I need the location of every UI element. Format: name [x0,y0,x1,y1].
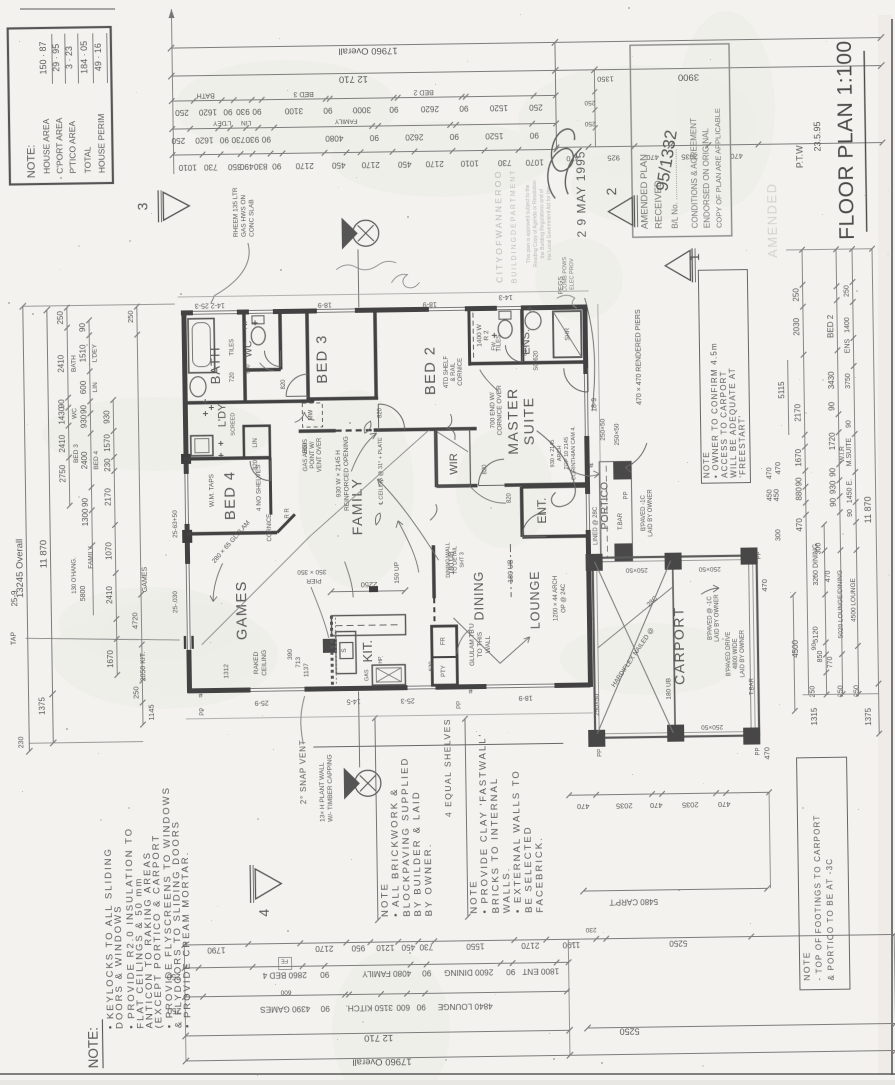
svg-text:PP: PP [755,747,761,755]
svg-text:WALLS.: WALLS. [501,867,513,914]
svg-text:FAMILY: FAMILY [87,545,94,568]
svg-text:REINFORCED OPENING: REINFORCED OPENING [343,436,351,511]
wall ens bottom robe top [470,362,586,364]
svg-text:29 · 95: 29 · 95 [51,44,61,72]
carport mid beam [673,557,676,737]
kitchen stove [372,665,405,685]
svg-text:R 2: R 2 [483,330,490,341]
svg-text:3750: 3750 [845,373,852,389]
svg-text:470: 470 [577,802,590,811]
bottom dim 5250 right [588,1023,895,1028]
svg-text:713: 713 [295,656,302,667]
svg-text:WC: WC [71,408,78,419]
door arc bed4 [250,461,270,481]
wall bath ldy divider [183,401,314,403]
svg-text:GAS HWS ON: GAS HWS ON [240,194,248,237]
svg-text:1010: 1010 [460,159,479,168]
svg-text:90: 90 [529,131,539,140]
annotation 2250 dim [331,591,405,592]
sheet corner line top left [20,8,115,10]
svg-text:11 870: 11 870 [38,540,49,569]
bed2 robe dashed [472,313,475,360]
svg-text:600: 600 [396,1003,410,1012]
tap cross marks [203,399,208,404]
svg-text:WALL: WALL [485,635,492,653]
svg-text:450: 450 [401,943,415,952]
svg-text:GAMES: GAMES [142,567,149,593]
svg-text:130 O'HANG.: 130 O'HANG. [72,557,79,594]
kitchen plant wall dashed [331,616,332,686]
svg-text:2: 2 [603,187,619,195]
wall wir bottom [436,484,477,488]
svg-text:2050 KIT.: 2050 KIT. [140,652,147,682]
svg-text:250: 250 [837,685,844,697]
svg-text:17960 Overall: 17960 Overall [338,45,397,57]
svg-text:18-9: 18-9 [318,301,332,308]
svg-text:HOUSE AREA: HOUSE AREA [41,118,52,174]
svg-text:MASTER: MASTER [504,387,521,455]
right dim col D wir bed2 [836,249,843,694]
svg-text:25-3: 25-3 [195,302,209,309]
svg-text:CONC SLAB: CONC SLAB [248,199,256,237]
svg-text:5115: 5115 [777,381,786,399]
svg-text:820: 820 [253,459,259,470]
wall kit dining dashed [433,598,435,626]
svg-text:3150 KITCH.: 3150 KITCH. [345,1003,392,1013]
window ens top [497,305,521,311]
svg-text:250: 250 [584,99,595,106]
svg-text:4390 GAMES: 4390 GAMES [260,1004,311,1014]
paving line bottom [186,713,593,719]
svg-text:AMENDED PLAN: AMENDED PLAN [639,154,651,229]
wall wir left [434,429,438,487]
svg-text:250: 250 [131,686,140,699]
window dining bottom [407,685,435,691]
svg-text:820: 820 [482,464,488,475]
svg-text:4 EQUAL SHELVES: 4 EQUAL SHELVES [442,718,453,817]
svg-text:2170: 2170 [425,159,444,168]
svg-text:25-63+50: 25-63+50 [172,510,179,538]
svg-text:300: 300 [775,529,782,541]
svg-text:14-3: 14-3 [499,293,513,300]
svg-text:T.BAR: T.BAR [618,512,624,530]
svg-text:SHT 3: SHT 3 [459,552,465,568]
svg-text:4500 LOUNGE: 4500 LOUNGE [850,577,858,621]
svg-text:L'DY: L'DY [216,403,228,427]
games raking diagonal [200,536,312,645]
svg-text:90: 90 [320,970,330,979]
svg-text:#: # [469,689,473,697]
svg-text:12 710: 12 710 [364,1032,393,1043]
svg-text:90: 90 [828,467,837,477]
door arc master [478,459,504,485]
svg-text:GAS: GAS [364,669,370,681]
wall bed4 right [269,458,273,515]
signature arrow [585,298,596,410]
svg-text:4800 WIDE: 4800 WIDE [733,638,739,669]
svg-text:25-9: 25-9 [10,590,19,607]
leader arrow reinforced opening [351,433,378,471]
svg-text:NOTE: NOTE [801,951,811,981]
svg-text:1: 1 [686,253,702,261]
svg-text:1375: 1375 [864,707,873,725]
svg-text:B'PAVED DRIVE: B'PAVED DRIVE [726,632,733,677]
svg-text:90: 90 [811,643,818,651]
svg-text:2170: 2170 [295,161,314,170]
svg-text:4720: 4720 [130,612,139,629]
svg-text:CEILING: CEILING [261,650,268,676]
svg-text:L'DEY: L'DEY [91,343,98,362]
svg-text:FR: FR [441,636,447,645]
left dim col games kit [137,307,143,725]
svg-text:4 NO SHELVES: 4 NO SHELVES [255,464,263,511]
svg-text:BATH: BATH [71,355,78,372]
scribble above plan 2 [391,274,419,288]
carport diagonals [595,561,674,734]
wall bed3 left [307,311,308,401]
leader master robe [480,369,498,391]
leader ent portico swirl [567,468,599,478]
svg-text:C I T Y O F W A N N E R O: C I T Y O F W A N N E R O O [493,171,505,283]
wall master bottom [504,484,587,485]
svg-text:1070: 1070 [104,542,113,560]
svg-text:18-9: 18-9 [518,694,532,701]
svg-text:CORNICE: CORNICE [267,514,273,542]
svg-text:& PORTICO TO BE AT -3C: & PORTICO TO BE AT -3C [825,858,836,981]
wir shelf diagonal [436,430,471,486]
svg-text:SHR: SHR [565,327,571,340]
svg-text:NOTE:: NOTE: [25,144,37,178]
bath tub [188,318,215,372]
right dim col C dining lounge [824,524,827,694]
svg-text:830: 830 [253,162,267,171]
top dim row 2 [172,123,556,129]
svg-text:184 · 05: 184 · 05 [79,41,89,74]
bottom band verticals [568,939,570,1055]
svg-text:RHEEM 135 LTR: RHEEM 135 LTR [232,187,240,237]
section marker 4 [255,869,281,899]
svg-text:350 × 350: 350 × 350 [297,568,327,575]
svg-text:1450 E.: 1450 E. [846,479,853,503]
svg-text:COPY OF PLAN ARE APPLICABLE: COPY OF PLAN ARE APPLICABLE [713,108,724,228]
door arc ens [505,345,522,362]
svg-text:250×50: 250×50 [614,423,621,445]
svg-text:90: 90 [416,1002,426,1011]
svg-text:4840 LOUNGE: 4840 LOUNGE [437,1001,493,1011]
svg-text:600: 600 [280,988,291,995]
svg-text:1670: 1670 [794,448,803,466]
svg-text:1300: 1300 [81,508,90,526]
svg-text:925: 925 [607,153,620,162]
svg-text:3100: 3100 [284,106,303,115]
svg-text:LIN: LIN [253,438,259,447]
svg-text:VENT OVER: VENT OVER [317,437,324,472]
svg-text:25-9: 25-9 [255,699,269,706]
svg-text:600: 600 [246,364,252,373]
portico beam dashes [606,466,607,558]
sheet border right [891,19,893,1075]
svg-text:T.BAR: T.BAR [749,677,755,695]
wall ldy bed4 divider [184,458,270,459]
svg-text:250×50: 250×50 [625,566,647,573]
svg-text:930: 930 [828,480,837,494]
svg-text:18-9: 18-9 [423,300,437,307]
svg-text:2860 BED 4: 2860 BED 4 [262,970,307,980]
svg-text:CORNICE: CORNICE [458,358,464,386]
svg-text:820: 820 [281,379,287,390]
svg-text:2035: 2035 [682,800,699,809]
svg-text:1550: 1550 [466,942,485,951]
svg-text:1720: 1720 [828,432,837,450]
leader curl wc [260,363,274,371]
svg-text:1790: 1790 [207,945,226,954]
svg-text:NOTE: NOTE [702,451,711,478]
wall hall family top [299,429,336,433]
svg-text:ENDORSED ON ORIGINAL: ENDORSED ON ORIGINAL [701,128,711,229]
svg-text:R R: R R [285,508,291,519]
svg-text:BATH: BATH [207,346,223,384]
hall dashed reinforced opening [336,429,374,432]
svg-text:B'PAVED -1C: B'PAVED -1C [641,494,648,531]
svg-text:90: 90 [827,401,836,411]
svg-text:1375: 1375 [38,697,47,715]
svg-text:5250: 5250 [620,1026,640,1036]
svg-text:4080: 4080 [325,134,344,143]
svg-text:350: 350 [227,162,241,171]
svg-text:TAP: TAP [11,632,18,646]
svg-text:2170: 2170 [793,403,802,421]
right dim col E msuite [852,249,859,694]
svg-text:17960 Overall: 17960 Overall [352,1056,411,1068]
svg-text:NOTE:: NOTE: [85,1027,101,1068]
svg-text:90: 90 [449,132,459,141]
svg-text:90: 90 [794,477,803,487]
svg-text:3 · 23: 3 · 23 [64,46,74,69]
svg-text:GLULAM TB'U: GLULAM TB'U [469,623,477,666]
svg-text:90: 90 [459,104,469,113]
ens wc pan [498,320,512,338]
svg-text:470: 470 [730,152,743,161]
svg-text:LINED @ 28C: LINED @ 28C [593,506,600,545]
svg-text:90: 90 [223,107,233,116]
svg-text:the Local Government Act for t: the Local Government Act for the [546,187,553,260]
section marker 1 [665,250,690,280]
svg-text:LAID BY OWNER: LAID BY OWNER [740,629,747,677]
svg-text:1400: 1400 [844,317,851,333]
door arc hall bed3 wall [564,368,588,392]
svg-text:930: 930 [79,414,88,428]
svg-text:250: 250 [126,310,135,323]
svg-text:930: 930 [102,410,111,424]
svg-text:2600 DINING: 2600 DINING [444,967,493,977]
svg-text:23.5.95: 23.5.95 [812,121,822,151]
signature scribble [547,129,582,199]
carport arrow [701,585,719,594]
svg-text:ENT.: ENT. [535,498,549,524]
svg-text:250: 250 [56,310,65,324]
svg-text:CONDITIONS & AGREEMENT: CONDITIONS & AGREEMENT [689,118,700,228]
svg-text:90: 90 [422,968,432,977]
window marker top [342,217,358,249]
svg-text:13× H PLANT WALL: 13× H PLANT WALL [319,762,327,822]
wall ent left [520,487,524,537]
svg-text:490: 490 [239,162,253,171]
svg-text:2170: 2170 [103,488,112,506]
svg-text:FE: FE [281,957,288,963]
window bed3 top [317,308,355,314]
bottom dim 12 710 [186,1030,570,1036]
door ent right [585,494,591,530]
wall ens left [520,310,524,363]
svg-text:5120: 5120 [811,626,820,643]
pantry fridge block [432,626,458,685]
svg-text:90: 90 [79,404,88,414]
note owner confirm carport [698,270,750,484]
section marker 3 [163,192,189,220]
kitchen pier [323,639,337,653]
svg-text:18-9: 18-9 [591,398,598,412]
svg-text:820: 820 [522,345,528,356]
svg-text:250: 250 [844,285,851,297]
svg-text:TOTAL: TOTAL [82,146,92,173]
svg-text:2035: 2035 [616,801,633,810]
svg-text:2400: 2400 [80,451,89,469]
svg-text:'FREESTART': 'FREESTART' [737,415,747,478]
svg-text:1315: 1315 [810,707,819,725]
svg-text:470: 470 [773,462,782,475]
door arc bed3 [286,374,308,396]
top dim right section piers row [556,143,882,148]
svg-text:SUITE: SUITE [520,396,537,445]
leader arrow lounge vee [453,617,530,664]
svg-text:1200 × 44 ARCH: 1200 × 44 ARCH [553,576,560,621]
bottom dim 5480 carport [584,888,768,891]
portico piers [613,461,631,479]
svg-text:FACEBRICK.: FACEBRICK. [534,836,546,913]
svg-text:PP: PP [624,491,630,499]
top dim line 12 710 [171,70,555,76]
svg-text:2 9 MAY 1995: 2 9 MAY 1995 [574,150,589,237]
top dim right section 1350 3900 [555,42,557,149]
svg-text:RAKED: RAKED [253,651,260,674]
svg-text:620: 620 [429,661,435,672]
right dim col F 11870 [872,249,879,734]
svg-text:90: 90 [78,322,87,332]
wall ent top [522,484,588,488]
svg-text:1570: 1570 [103,434,112,452]
svg-text:5250: 5250 [669,939,688,948]
svg-text:3430: 3430 [827,371,836,389]
squiggle curl bed2 [446,414,455,440]
svg-text:250: 250 [175,108,189,117]
svg-text:90: 90 [320,1004,330,1013]
svg-text:2410: 2410 [58,434,67,452]
svg-text:1670: 1670 [106,650,115,668]
svg-text:5800: 5800 [80,586,87,602]
leader wir arc mark [469,485,505,504]
svg-text:14-2: 14-2 [211,301,225,308]
house area note table box [8,27,113,185]
svg-text:730: 730 [419,942,433,951]
note footings carport [797,757,850,990]
svg-text:950: 950 [351,943,365,952]
svg-text:PP: PP [597,749,603,757]
laundry trough [191,436,213,456]
stamp amended plan box [630,44,732,237]
svg-text:#: # [199,693,203,701]
svg-text:230: 230 [585,926,596,933]
left dim line 11870 [47,310,53,743]
leader arrow family ceiling [396,520,419,572]
eaves line top [178,291,589,297]
carport right double beam [749,556,752,736]
wall exterior left [184,311,190,693]
svg-text:5480 CARP'T: 5480 CARP'T [609,897,658,907]
top dim row rooms BATH BED3 BED2 [172,95,556,101]
svg-text:W.M. TAPS: W.M. TAPS [208,473,215,507]
right dim col B [802,250,809,695]
svg-text:L'DEY: L'DEY [212,119,231,126]
note all brickwork [375,718,378,920]
window bath top [193,310,237,316]
svg-text:1620: 1620 [195,135,214,144]
svg-text:820: 820 [507,492,513,503]
svg-text:SCREED: SCREED [230,413,236,436]
bottom dim rooms row 2 [185,962,569,968]
svg-text:PP: PP [457,701,463,709]
svg-text:BED 2: BED 2 [826,314,835,338]
svg-text:1010: 1010 [178,163,197,172]
svg-text:3000: 3000 [352,105,371,114]
svg-text:14-5: 14-5 [347,697,361,704]
wall bed3 bottom [308,398,378,399]
wall exterior top [181,307,587,313]
svg-text:PTY: PTY [441,665,447,677]
svg-text:FAMILY: FAMILY [348,477,365,535]
svg-text:LAID BY OWNER: LAID BY OWNER [648,489,655,537]
svg-text:AMENDED: AMENDED [764,182,780,258]
svg-text:770: 770 [827,656,834,668]
svg-text:90: 90 [846,420,853,428]
svg-text:PIER: PIER [306,577,322,584]
wall robe bed2 master divider [467,311,471,366]
svg-text:BED 4: BED 4 [93,450,100,469]
svg-text:BATH: BATH [197,91,215,98]
svg-text:HOUSE PERIM: HOUSE PERIM [96,114,107,174]
svg-text:90: 90 [323,106,333,115]
svg-text:13245 Overall: 13245 Overall [14,539,26,598]
left dim line 13245 Overall [23,306,30,751]
svg-text:1312: 1312 [223,664,230,679]
svg-text:470 × 470 RENDERED PIERS: 470 × 470 RENDERED PIERS [635,309,643,405]
carport beams outline [593,555,760,737]
svg-text:P.T.W: P.T.W [794,145,804,168]
svg-text:930: 930 [236,107,250,116]
wall wc right [278,312,282,370]
wall ent bottom [522,534,588,538]
svg-text:the Building Regulations and o: the Building Regulations and of [539,188,546,258]
note fastwall bricks [465,719,468,917]
svg-text:470: 470 [718,800,731,809]
window kit bottom [250,687,304,693]
svg-text:180 UB: 180 UB [665,678,672,700]
svg-text:250: 250 [809,686,816,698]
svg-text:250×50: 250×50 [698,565,720,572]
svg-text:450: 450 [397,160,411,169]
svg-text:1070: 1070 [525,158,544,167]
svg-text:1620: 1620 [198,107,217,116]
bottom dim carport piers row [569,792,769,795]
